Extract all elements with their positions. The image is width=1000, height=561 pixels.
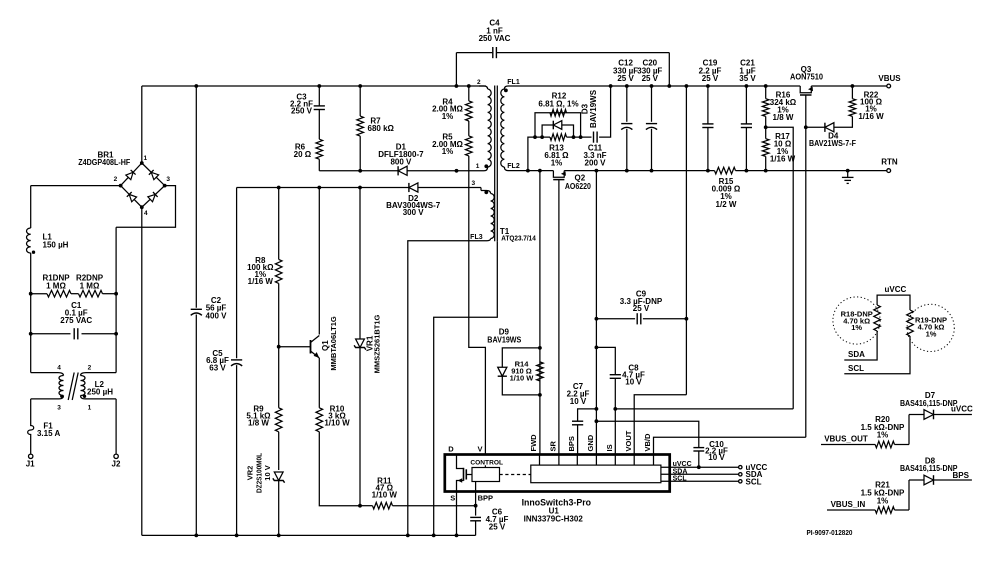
svg-text:BAS416,115-DNP: BAS416,115-DNP <box>900 464 958 473</box>
svg-text:1%: 1% <box>551 159 563 168</box>
bridge BR1 diamond <box>121 163 165 207</box>
svg-text:SCL: SCL <box>673 476 688 483</box>
node BR1 pin4 <box>140 205 144 209</box>
wire Q1 emitter to R10 <box>318 358 320 408</box>
wire VR1 to R11 line <box>359 348 361 506</box>
svg-text:3: 3 <box>57 405 61 412</box>
svg-text:25 V: 25 V <box>633 304 650 313</box>
wire R6 to clamp line <box>318 159 320 171</box>
wire GND column <box>595 171 597 454</box>
node T1 pin1 phase dot <box>484 164 488 168</box>
svg-text:800 V: 800 V <box>390 158 412 167</box>
diode D9 <box>498 367 507 376</box>
svg-text:250 V: 250 V <box>291 106 313 115</box>
wire FWD column <box>539 171 541 454</box>
wire core shield return <box>434 241 498 535</box>
wire R9 column <box>278 347 280 408</box>
svg-text:1/2 W: 1/2 W <box>716 200 737 209</box>
wire C11 to rail <box>599 86 611 137</box>
capacitor C1 <box>31 333 71 335</box>
svg-text:25 V: 25 V <box>642 74 659 83</box>
resistor R12 <box>550 110 567 117</box>
node rail C20 top <box>650 84 654 88</box>
node rail C21 tap <box>745 169 749 173</box>
node R16 R17 junction <box>764 125 768 129</box>
node GND C10 tap <box>595 419 599 423</box>
zener VR2 <box>274 472 283 481</box>
wire IS to sense line <box>615 408 793 410</box>
node GND C8 tap <box>595 346 599 350</box>
wire snubber left leg <box>528 137 550 171</box>
capacitor C7 <box>572 420 583 422</box>
wire R8 column upper <box>278 188 280 260</box>
wire VBUS_IN line <box>827 509 875 511</box>
svg-text:Z4DGP408L-HF: Z4DGP408L-HF <box>78 158 130 167</box>
wire R11 left lead <box>360 505 373 507</box>
svg-text:1%: 1% <box>851 323 862 332</box>
wire R8 to base node <box>278 283 280 346</box>
node gnd rail FL3 <box>406 534 410 538</box>
resistor R7 <box>357 116 364 136</box>
svg-text:3: 3 <box>471 180 475 187</box>
svg-text:200 V: 200 V <box>585 159 607 168</box>
node bias R8 tap <box>277 186 281 190</box>
svg-text:PI-9097-012820: PI-9097-012820 <box>807 528 853 537</box>
node R2 right junction <box>114 292 118 296</box>
wire output rail Q2 to R15 <box>564 170 714 172</box>
node IS junction <box>613 407 617 411</box>
node snubber j4 <box>579 135 583 139</box>
node rail C11 tap <box>609 84 613 88</box>
wire V pin internal <box>484 465 486 467</box>
capacitor C12 <box>626 86 628 122</box>
wire C6 to rail <box>475 521 477 536</box>
svg-text:VB/D: VB/D <box>643 433 652 452</box>
node GND C7 tap <box>595 407 599 411</box>
wire C3 stub <box>318 86 320 106</box>
node snubber j1 <box>533 135 537 139</box>
resistor R5 <box>466 136 473 156</box>
svg-text:RTN: RTN <box>881 158 898 167</box>
capacitor C21 <box>745 86 747 124</box>
svg-text:BAV21WS-7-F: BAV21WS-7-F <box>809 139 856 148</box>
wire C7 to BPS pin <box>577 425 579 454</box>
capacitor C6 <box>470 516 481 518</box>
ic U1 inner block <box>531 465 661 483</box>
node snubber j3 <box>572 135 576 139</box>
svg-text:35 V: 35 V <box>739 74 756 83</box>
resistor R1 <box>31 293 47 295</box>
capacitor C4 <box>492 47 494 58</box>
wire left input column upper <box>30 186 32 228</box>
wire VOUT link <box>634 395 686 454</box>
wire SDA pin line <box>661 473 740 475</box>
resistor R18 <box>874 305 881 331</box>
node D9 box top <box>538 346 542 350</box>
ic U1 internal mosfet <box>457 455 464 469</box>
wire BR1 pin3 jog <box>116 186 175 228</box>
svg-text:SDA: SDA <box>673 468 688 475</box>
fuse F1 <box>28 422 34 454</box>
wire C5 column lower <box>236 365 238 535</box>
svg-text:J2: J2 <box>112 460 121 469</box>
capacitor C20 <box>651 86 653 122</box>
wire D4 to R22 <box>834 116 853 127</box>
wire R12 branch <box>535 113 581 137</box>
wire D3 branch <box>542 125 573 137</box>
wire VBUS_OUT line <box>821 444 875 446</box>
wire IS column <box>614 409 616 454</box>
svg-text:300 V: 300 V <box>403 208 425 217</box>
svg-text:1%: 1% <box>442 112 454 121</box>
svg-text:4: 4 <box>57 365 61 372</box>
svg-text:3: 3 <box>166 176 170 183</box>
ic U1 outline <box>445 455 670 492</box>
svg-text:150 µH: 150 µH <box>43 241 69 250</box>
inductor L2 right winding <box>81 373 87 376</box>
node rail VOUT sense top <box>685 84 689 88</box>
svg-text:INN3379C-H302: INN3379C-H302 <box>524 514 584 523</box>
svg-text:VBUS_IN: VBUS_IN <box>831 500 866 509</box>
wire sense junction to GND line <box>766 127 794 409</box>
wire C4 left stub <box>455 53 457 86</box>
wire D8 vertical <box>908 480 910 510</box>
resistor R2 <box>79 290 103 297</box>
node R11 line VR1 junction <box>358 504 362 508</box>
node BR1 pin1 <box>140 161 144 165</box>
node rail C4 top <box>667 84 671 88</box>
svg-text:AO6220: AO6220 <box>565 182 591 191</box>
svg-text:VR2: VR2 <box>246 466 255 481</box>
node C9 right junction <box>685 317 689 321</box>
svg-text:CONTROL: CONTROL <box>470 459 503 466</box>
svg-text:10 V: 10 V <box>708 453 725 462</box>
svg-text:3.15 A: 3.15 A <box>37 429 60 438</box>
wire C5 column upper <box>236 188 238 359</box>
node rail R22 tap <box>851 84 855 88</box>
wire AC line from BR1 pin2 to left column <box>31 185 121 187</box>
terminal VBUS <box>887 84 891 88</box>
svg-text:VBUS: VBUS <box>878 74 901 83</box>
capacitor C10 <box>693 447 704 449</box>
node FWD top junction <box>538 169 542 173</box>
svg-text:MMBTA06LT1G: MMBTA06LT1G <box>329 316 338 370</box>
wire R21 to corner <box>895 509 910 511</box>
svg-text:1 MΩ: 1 MΩ <box>46 282 66 291</box>
wire primary HV rail <box>142 85 486 87</box>
node gnd rail C2 <box>194 534 198 538</box>
node bias VR1 tap <box>358 186 362 190</box>
terminal SDA <box>739 473 742 476</box>
node D9 box bottom <box>538 393 542 397</box>
wire R7 stub <box>359 86 361 116</box>
wire D8 to BPS <box>934 479 972 481</box>
node BR1 pin2 <box>119 184 123 188</box>
resistor R20 <box>875 441 894 448</box>
svg-text:1/10 W: 1/10 W <box>372 490 398 499</box>
resistor R9 <box>275 408 282 432</box>
node Q1 base junction <box>277 345 281 349</box>
wire drain node to primary pin1 <box>457 170 480 172</box>
node rail C4 tap <box>455 84 459 88</box>
wire clamp bottom line <box>319 170 398 172</box>
ic U1 control block <box>472 468 500 482</box>
wire Q3 gate down <box>805 97 807 438</box>
node rail R17 tap <box>764 169 768 173</box>
svg-text:25 V: 25 V <box>702 74 719 83</box>
wire R4 stub <box>468 86 470 101</box>
node rail C19 tap <box>706 169 710 173</box>
wire S pin <box>456 492 458 536</box>
inductor L1 <box>27 228 31 253</box>
svg-text:FL1: FL1 <box>507 79 520 86</box>
svg-text:BAV19WS: BAV19WS <box>589 89 598 128</box>
wire D7 line <box>909 414 924 416</box>
resistor R22 <box>849 99 856 117</box>
node GND C9 tap <box>595 317 599 321</box>
wire R22 to rail <box>851 86 853 99</box>
terminal J2 <box>114 454 118 458</box>
node snubber j2 <box>540 135 544 139</box>
svg-text:ATQ23.7/14: ATQ23.7/14 <box>501 236 536 243</box>
svg-text:25 V: 25 V <box>617 74 634 83</box>
svg-text:10 V: 10 V <box>570 397 587 406</box>
capacitor C5 <box>231 359 242 361</box>
capacitor C3 <box>314 105 325 107</box>
wire C3 to R6 <box>318 110 320 140</box>
node rail gnd sym tap <box>846 169 850 173</box>
resistor R16 <box>762 99 769 117</box>
svg-text:1/8 W: 1/8 W <box>248 418 269 427</box>
wire FL1 output rail <box>511 85 800 87</box>
resistor R14 zigzag <box>537 362 544 381</box>
wire SR column <box>558 180 560 454</box>
svg-text:VOUT: VOUT <box>624 430 633 451</box>
diode D2 <box>409 183 418 192</box>
wire snubber bottom right <box>567 136 592 138</box>
svg-text:250 µH: 250 µH <box>87 387 113 396</box>
wire L2 pin3 lead <box>31 398 59 400</box>
capacitor C19 <box>707 86 709 124</box>
node T1 FL1 phase dot <box>504 89 508 93</box>
svg-text:J1: J1 <box>26 460 35 469</box>
node gnd rail C5 <box>235 534 239 538</box>
svg-text:63 V: 63 V <box>209 363 226 372</box>
resistor R8 <box>275 259 282 283</box>
svg-text:FL2: FL2 <box>507 163 520 170</box>
wire IS pin stub <box>614 455 616 466</box>
resistor R17 <box>762 139 769 157</box>
node gnd rail shield <box>432 534 436 538</box>
svg-text:SCL: SCL <box>746 477 762 486</box>
svg-text:6.81 Ω, 1%: 6.81 Ω, 1% <box>538 99 578 108</box>
wire SCL pin line <box>661 480 740 482</box>
svg-text:2: 2 <box>114 176 118 183</box>
wire output rail R15 to RTN <box>736 170 887 172</box>
node C1 right junction <box>114 332 118 336</box>
wire D1 to drain node <box>407 170 456 172</box>
svg-text:1/8 W: 1/8 W <box>773 113 794 122</box>
wire R19 to SCL <box>844 336 910 374</box>
node rail R16 top <box>764 84 768 88</box>
svg-text:1%: 1% <box>442 147 454 156</box>
capacitor C9 line <box>596 318 635 320</box>
node drain junction <box>455 169 459 173</box>
diode BR1 lower-right <box>148 192 158 202</box>
wire VBUS rail right <box>811 85 886 87</box>
wire bias line <box>237 187 409 189</box>
wire VOUT sense column <box>685 86 687 395</box>
wire uVCC pin line <box>661 466 740 468</box>
svg-text:uVCC: uVCC <box>951 405 973 414</box>
wire C10 to uVCC line <box>698 451 700 467</box>
resistor R10 <box>316 408 323 432</box>
wire L2 pin4 lead <box>30 368 32 373</box>
svg-text:SCL: SCL <box>848 364 864 373</box>
node L2 dot pin1 <box>83 395 86 398</box>
capacitor C8 <box>610 374 621 376</box>
svg-text:10 V: 10 V <box>625 378 642 387</box>
svg-text:MMSZ5261BT1G: MMSZ5261BT1G <box>373 314 382 373</box>
wire R11 to BPP <box>393 505 476 507</box>
wire R10 to R11 line <box>319 432 360 506</box>
wire FL2 output rail <box>511 170 553 172</box>
svg-text:1%: 1% <box>926 330 937 339</box>
svg-text:1/10 W: 1/10 W <box>324 418 350 427</box>
wire C8 to IS node <box>614 379 616 409</box>
node clamp R7 junction <box>358 169 362 173</box>
wire L2 pin1 lead <box>85 398 116 400</box>
node L2 dot pin3 <box>60 395 63 398</box>
diode D3 <box>553 121 562 130</box>
wire uVCC bracket <box>877 295 910 310</box>
svg-text:SDA: SDA <box>848 350 865 359</box>
terminal SCL <box>739 480 742 483</box>
node rail C21 top <box>745 84 749 88</box>
resistor R11 <box>373 502 393 509</box>
svg-text:uVCC: uVCC <box>885 285 907 294</box>
wire D9 branch <box>502 348 540 367</box>
svg-text:680 kΩ: 680 kΩ <box>368 124 395 133</box>
inductor L2 left winding <box>58 373 64 376</box>
wire C2 column upper <box>195 86 197 308</box>
wire right input column <box>115 227 117 372</box>
svg-text:FWD: FWD <box>529 434 538 452</box>
svg-text:IS: IS <box>605 444 614 451</box>
svg-text:1/16 W: 1/16 W <box>770 155 796 164</box>
core T1 <box>494 86 496 242</box>
resistor R13 <box>550 134 567 141</box>
node rail R4 tap <box>467 84 471 88</box>
wire R18 to SDA <box>844 331 877 360</box>
wire C4 right <box>497 52 669 54</box>
svg-text:10 V: 10 V <box>263 465 272 480</box>
wire C7 branch <box>578 409 597 421</box>
svg-text:275 VAC: 275 VAC <box>60 316 92 325</box>
wire BPP pin <box>475 492 477 516</box>
wire R20 to corner <box>895 444 910 446</box>
svg-text:1/16 W: 1/16 W <box>248 277 274 286</box>
node R11 BPP junction <box>474 504 478 508</box>
wire SR pin stub <box>558 455 560 466</box>
node BR1 pin3 <box>163 184 167 188</box>
svg-text:AON7510: AON7510 <box>790 73 824 82</box>
node rail C19 top <box>706 84 710 88</box>
svg-text:S: S <box>450 493 455 502</box>
node T1 pin3 phase dot <box>484 190 488 194</box>
svg-text:20 Ω: 20 Ω <box>294 150 312 159</box>
diode BR1 lower-left <box>127 192 137 202</box>
zener VR1 <box>356 339 365 348</box>
dnp circle R18 <box>833 297 880 344</box>
svg-text:2: 2 <box>88 365 92 372</box>
mosfet Q3 <box>800 86 811 93</box>
wire VR2 to ground rail <box>278 481 280 536</box>
svg-text:400 V: 400 V <box>206 311 228 320</box>
wire R16 stub <box>765 86 767 99</box>
diode D7 <box>924 410 934 420</box>
wire primary ground rail <box>142 534 476 536</box>
ic U1 dashed link <box>500 474 531 476</box>
node rail C12 top <box>625 84 629 88</box>
resistor R15 <box>715 167 736 174</box>
wire L2 pin2 lead <box>86 372 116 374</box>
node rail C2 tap <box>194 84 198 88</box>
transformer T1 bias winding FL3 <box>487 191 491 194</box>
svg-text:1 MΩ: 1 MΩ <box>80 282 100 291</box>
wire VOUT pin stub <box>633 455 635 466</box>
capacitor C11 <box>593 132 595 143</box>
svg-text:D: D <box>448 444 454 453</box>
svg-text:BAS416,115-DNP: BAS416,115-DNP <box>900 399 958 408</box>
wire D7 to uVCC <box>934 414 972 416</box>
dnp circle R19 <box>907 304 954 351</box>
svg-text:BPP: BPP <box>478 493 493 502</box>
node rail snubber tap <box>526 169 530 173</box>
resistor R4 <box>466 101 473 121</box>
svg-text:1/10 W: 1/10 W <box>510 373 535 382</box>
wire BR1 pin4 down <box>141 207 143 535</box>
resistor R21 <box>875 507 894 514</box>
node rail C3 tap <box>317 84 321 88</box>
svg-text:BAV19WS: BAV19WS <box>487 335 522 344</box>
svg-text:250 VAC: 250 VAC <box>479 34 511 43</box>
resistor R19 <box>907 310 914 336</box>
node rail R7 tap <box>358 84 362 88</box>
diode D8 <box>924 475 934 485</box>
core L2 slanted lines <box>68 373 74 401</box>
node bias Q1 collector tap <box>317 186 321 190</box>
terminal J1 <box>29 454 33 458</box>
wire D2 to pin3 <box>418 187 481 189</box>
svg-text:1: 1 <box>476 163 480 170</box>
node rail C12 tap <box>625 169 629 173</box>
svg-text:1: 1 <box>143 155 147 162</box>
node gnd rail VR2 <box>277 534 281 538</box>
wire VR1 column upper <box>359 188 361 339</box>
svg-text:2: 2 <box>477 79 481 86</box>
terminal RTN <box>887 169 891 173</box>
wire R4-R5 link <box>468 121 470 136</box>
wire FL3 return <box>408 241 484 536</box>
node rail C20 tap <box>650 169 654 173</box>
diode BR1 upper-left <box>126 170 136 180</box>
svg-text:VBUS_OUT: VBUS_OUT <box>824 434 868 443</box>
svg-text:BPS: BPS <box>567 436 576 451</box>
diode D1 <box>398 166 407 175</box>
node gnd rail S pin <box>455 534 459 538</box>
wire D8 line <box>909 479 924 481</box>
